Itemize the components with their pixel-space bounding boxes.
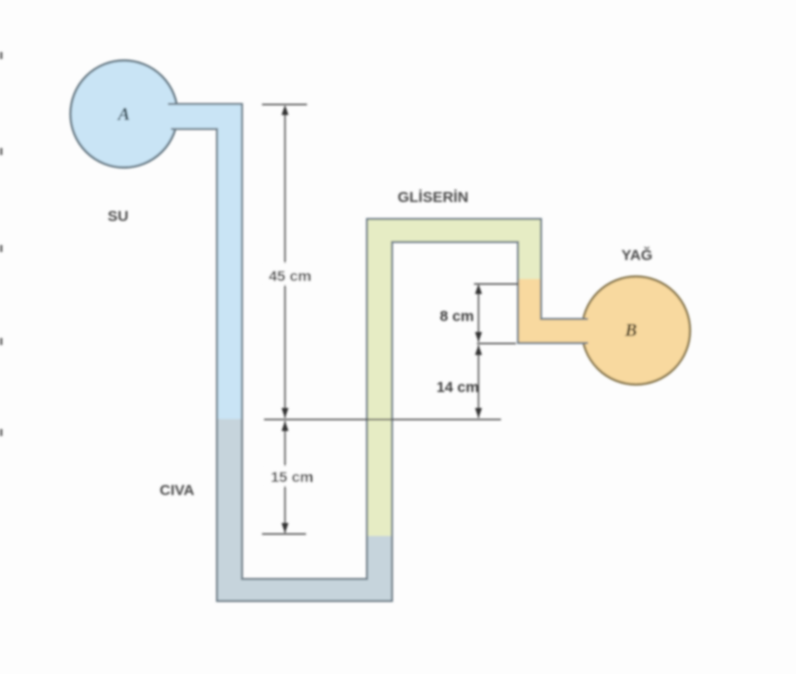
svg-text:B: B — [624, 320, 637, 340]
tube wall (outer path): bottom of connector, left wall of left leg, outer bottom, right wall of middle leg, inner glycerin bar, left wall of right leg, top of oil tube — [171, 129, 588, 601]
8cm top tick (glycerin-oil interface) — [474, 283, 519, 285]
svg-text:GLİSERİN: GLİSERİN — [398, 189, 469, 206]
svg-text:45 cm: 45 cm — [269, 268, 312, 285]
vessel A (water reservoir, circle A) — [71, 61, 178, 168]
tube wall (inner path): top of connector, right wall of left leg, inner bottom, left wall of middle leg, top of glycerin bar, right wall of right leg, bottom of oil tube — [168, 104, 588, 579]
45cm top tick — [262, 104, 307, 106]
svg-text:YAĞ: YAĞ — [621, 246, 652, 264]
oil fill (right leg lower part + horizontal tube to B) — [518, 279, 585, 343]
svg-text:15 cm: 15 cm — [271, 469, 314, 486]
14cm dimension line — [478, 345, 480, 418]
svg-text:8 cm: 8 cm — [440, 308, 474, 325]
level line at mercury-water interface — [264, 419, 501, 421]
svg-text:A: A — [117, 104, 130, 124]
8cm bottom tick — [477, 343, 516, 345]
vessel B (oil reservoir, circle B) — [582, 277, 690, 385]
glycerin fill (middle leg + top bar + right leg) — [367, 219, 541, 536]
water column (SU) fill: connector + left vertical tube — [150, 104, 242, 420]
page edge marks — [0, 52, 3, 59]
8cm dimension line — [478, 286, 480, 342]
svg-text:SU: SU — [108, 208, 129, 225]
svg-text:CIVA: CIVA — [160, 482, 195, 499]
oil tube fill overlapping circle B opening — [560, 320, 600, 342]
15cm bottom tick — [262, 533, 306, 535]
svg-text:14 cm: 14 cm — [436, 379, 479, 396]
mercury (CIVA) fill in U-tube bottom — [217, 419, 392, 601]
15cm dimension line — [284, 421, 286, 533]
45cm dimension line — [284, 108, 286, 418]
